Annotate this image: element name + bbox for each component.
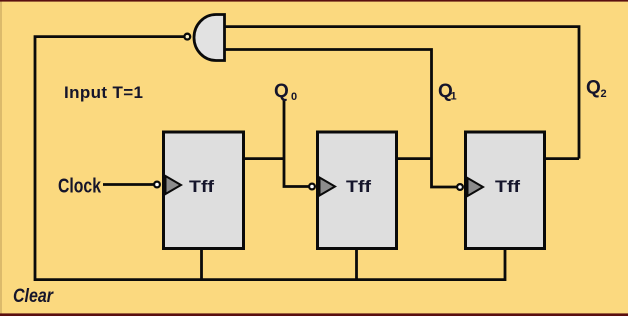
svg-text:1: 1 xyxy=(451,91,457,103)
svg-text:Clock: Clock xyxy=(58,176,102,198)
svg-text:0: 0 xyxy=(291,91,297,103)
svg-text:Tff: Tff xyxy=(346,177,371,196)
svg-text:2: 2 xyxy=(601,88,607,100)
svg-text:Q: Q xyxy=(586,78,601,99)
svg-text:Q: Q xyxy=(274,81,289,102)
svg-text:Input T=1: Input T=1 xyxy=(64,83,143,102)
svg-text:Tff: Tff xyxy=(495,177,520,196)
svg-text:Clear: Clear xyxy=(13,286,54,307)
svg-text:Tff: Tff xyxy=(189,177,214,196)
